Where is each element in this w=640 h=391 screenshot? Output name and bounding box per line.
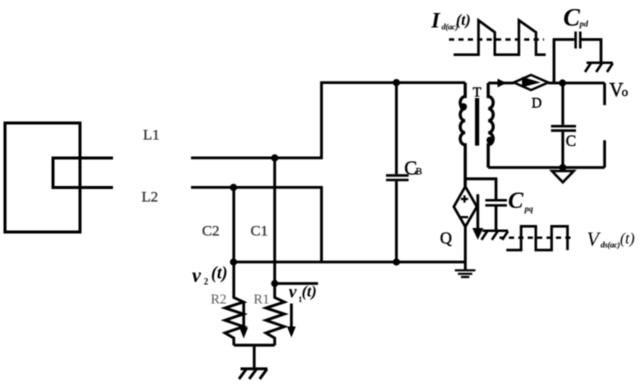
svg-text:C1: C1 xyxy=(251,223,269,239)
svg-text:v: v xyxy=(289,282,297,302)
svg-text:C2: C2 xyxy=(202,223,220,239)
svg-text:2: 2 xyxy=(204,277,209,287)
svg-text:(t): (t) xyxy=(211,263,228,283)
svg-text:L2: L2 xyxy=(142,190,159,206)
svg-text:R1: R1 xyxy=(254,292,270,307)
svg-text:ds(ac): ds(ac) xyxy=(601,239,621,249)
svg-text:C: C xyxy=(563,5,580,32)
svg-text:T: T xyxy=(473,86,482,101)
svg-text:pq: pq xyxy=(524,204,534,214)
svg-text:R2: R2 xyxy=(211,292,227,307)
svg-text:(t): (t) xyxy=(456,12,471,29)
svg-text:pd: pd xyxy=(579,18,589,28)
svg-text:D: D xyxy=(532,96,542,112)
svg-text:C: C xyxy=(508,188,524,213)
svg-text:o: o xyxy=(622,84,629,99)
svg-text:Q: Q xyxy=(440,228,452,247)
svg-text:v: v xyxy=(192,265,202,287)
svg-text:C: C xyxy=(566,133,576,150)
svg-text:B: B xyxy=(416,167,422,177)
svg-text:(t): (t) xyxy=(620,231,635,248)
svg-text:L1: L1 xyxy=(143,128,160,144)
svg-text:(t): (t) xyxy=(302,284,317,301)
svg-text:I: I xyxy=(430,7,441,32)
